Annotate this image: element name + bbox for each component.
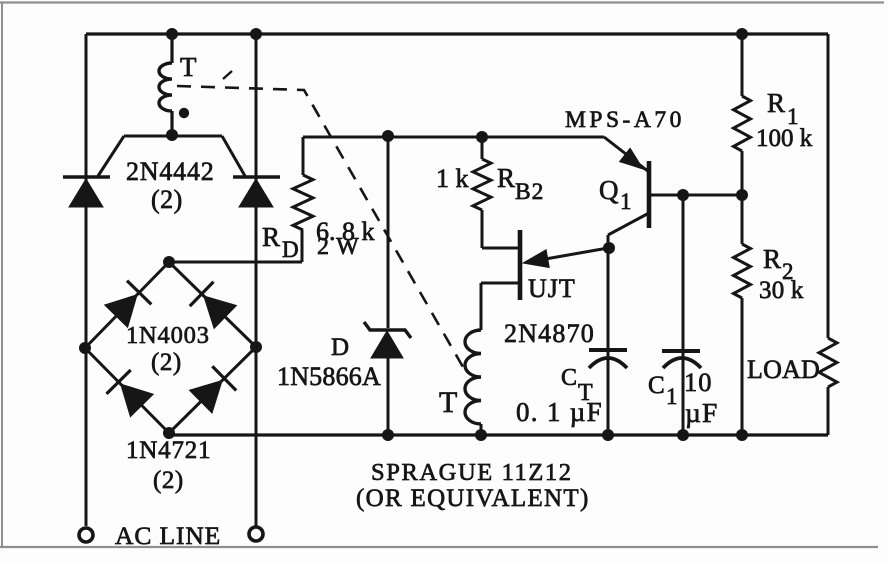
wire: bridge edge left-top <box>85 262 169 348</box>
svg-text:(2): (2) <box>151 185 183 214</box>
label 1N4003 <box>126 322 210 349</box>
zener diode D 1N5866A <box>364 137 411 435</box>
diode bridge 1N4721 lower-left <box>107 370 154 417</box>
junction: rail / RB2 <box>476 131 488 143</box>
wire: right edge (top bus to LOAD) <box>827 34 830 338</box>
svg-text:R: R <box>497 163 516 193</box>
resistor RB2 1k <box>473 137 491 248</box>
diode bridge 1N4721 lower-right <box>190 366 237 413</box>
capacitor CT 0.1uF <box>589 248 627 435</box>
polarity dot (primary) <box>179 108 189 118</box>
resistor LOAD <box>819 338 837 387</box>
junction: top bus / right SCR branch <box>250 28 262 40</box>
junction: CT / Q1 collector / UJT emitter <box>603 242 615 254</box>
svg-text:1N5866A: 1N5866A <box>277 362 381 391</box>
node: bridge bottom vertex <box>163 427 175 439</box>
label T (secondary) <box>439 386 458 419</box>
resistor RD 6.8k <box>293 137 313 262</box>
label Q1 <box>599 175 632 214</box>
diode bridge 1N4003 upper-left <box>105 281 152 328</box>
svg-text:C: C <box>561 365 578 391</box>
label 1N5866A <box>277 362 381 391</box>
svg-text:10: 10 <box>684 367 713 397</box>
terminal: AC line right <box>249 527 263 541</box>
dashed transformer coupling line <box>177 71 463 367</box>
label 6.8 k <box>316 217 375 246</box>
junction: top bus / transformer <box>166 28 178 40</box>
wire: right SCR gate lead <box>222 136 245 176</box>
label 2 W <box>317 234 360 260</box>
label T (primary) <box>180 52 197 82</box>
svg-text:30 k: 30 k <box>759 277 804 304</box>
label (2) for 1N4003 <box>151 349 182 376</box>
wire: bridge edge bottom-left <box>85 348 169 433</box>
label MPS-A70 <box>565 107 685 133</box>
label 1N4721 <box>126 437 211 464</box>
svg-text:T: T <box>180 52 197 82</box>
terminal: AC line left <box>79 528 93 542</box>
label 1 k <box>436 164 469 193</box>
svg-text:R: R <box>262 222 281 252</box>
svg-text:Q: Q <box>599 175 619 205</box>
label uF <box>685 397 719 428</box>
transformer T secondary winding <box>465 283 481 435</box>
label 2N4442 <box>126 157 215 186</box>
svg-text:1 k: 1 k <box>436 164 469 193</box>
wire: bridge edge right-top <box>169 262 256 347</box>
svg-text:B2: B2 <box>515 179 544 205</box>
label 10 <box>684 367 713 397</box>
wire: bottom return bus <box>169 387 828 435</box>
transformer T primary winding <box>159 34 172 133</box>
label RD <box>262 222 299 262</box>
wire: top supply bus <box>86 32 828 35</box>
label 0.1 uF <box>516 397 603 427</box>
wire: top control rail <box>303 136 604 139</box>
UJT 2N4870 <box>481 230 608 300</box>
SCR 2N4442 left <box>63 177 110 207</box>
junction: C1 / bottom bus <box>677 429 689 441</box>
svg-text:LOAD: LOAD <box>747 355 820 384</box>
label UJT <box>528 274 576 303</box>
svg-text:T: T <box>439 386 458 419</box>
label C1 <box>648 372 678 409</box>
junction: R2 / bottom bus <box>736 429 748 441</box>
svg-text:(OR EQUIVALENT): (OR EQUIVALENT) <box>356 485 590 512</box>
svg-text:2N4870: 2N4870 <box>504 319 595 348</box>
svg-text:0. 1 µF: 0. 1 µF <box>516 397 603 427</box>
label (2) for 1N4721 <box>153 467 184 494</box>
svg-text:1: 1 <box>666 384 678 409</box>
node: bridge top vertex <box>163 256 175 268</box>
node: bridge right vertex <box>250 341 262 353</box>
label (2) for 2N4442 <box>151 185 183 214</box>
junction: transformer / gate wire <box>166 129 178 141</box>
junction: zener / bottom bus <box>382 429 394 441</box>
wire: bridge edge bottom-right <box>169 347 256 433</box>
svg-text:R: R <box>763 244 782 274</box>
resistor R1 100k <box>734 34 751 195</box>
svg-text:2 W: 2 W <box>317 234 360 260</box>
label R2 <box>763 244 794 284</box>
resistor R2 30k <box>734 195 751 435</box>
svg-text:R: R <box>767 88 786 118</box>
caption SPRAGUE 11Z12 <box>371 459 573 486</box>
label R1 <box>767 88 799 129</box>
junction: CT / bottom bus <box>602 429 614 441</box>
svg-text:1N4721: 1N4721 <box>126 437 211 464</box>
label CT <box>561 365 593 406</box>
label 30 k <box>759 277 804 304</box>
svg-text:AC LINE: AC LINE <box>115 521 221 550</box>
svg-text:2N4442: 2N4442 <box>126 157 215 186</box>
node: bridge left vertex <box>79 342 91 354</box>
junction: divider / base rail <box>736 189 748 201</box>
junction: top bus / R1 <box>736 28 748 40</box>
label LOAD <box>747 355 820 384</box>
label AC LINE <box>115 521 221 550</box>
svg-text:(2): (2) <box>153 467 184 494</box>
junction: C1 / base rail <box>677 189 689 201</box>
label RB2 <box>497 163 544 205</box>
svg-text:100 k: 100 k <box>756 125 813 152</box>
capacitor C1 10uF <box>662 195 701 435</box>
label 100 k <box>756 125 813 152</box>
wire: Q1 base to divider <box>649 194 742 197</box>
label D <box>331 334 350 361</box>
wire: bridge+ to RD <box>169 261 302 264</box>
wire: left AC line vertical <box>85 34 88 526</box>
caption (OR EQUIVALENT) <box>356 485 590 512</box>
svg-text:1: 1 <box>620 189 632 214</box>
wire: gate trigger horizontal <box>124 135 222 138</box>
wire: right AC branch vertical <box>255 34 258 526</box>
svg-text:MPS-A70: MPS-A70 <box>565 107 685 133</box>
svg-text:µF: µF <box>685 397 719 428</box>
diode bridge 1N4003 upper-right <box>190 282 237 329</box>
junction: secondary / bottom bus <box>475 429 487 441</box>
svg-text:C: C <box>648 372 665 399</box>
label 2N4870 <box>504 319 595 348</box>
wire: left SCR gate lead <box>98 136 124 176</box>
SCR 2N4442 right <box>233 177 280 207</box>
svg-text:SPRAGUE 11Z12: SPRAGUE 11Z12 <box>371 459 573 486</box>
svg-text:D: D <box>282 237 299 262</box>
svg-text:(2): (2) <box>151 349 182 376</box>
svg-text:UJT: UJT <box>528 274 576 303</box>
svg-text:1N4003: 1N4003 <box>126 322 210 349</box>
junction: rail / zener branch <box>382 130 394 142</box>
transistor Q1 MPS-A70 <box>604 137 649 248</box>
svg-text:D: D <box>331 334 350 361</box>
